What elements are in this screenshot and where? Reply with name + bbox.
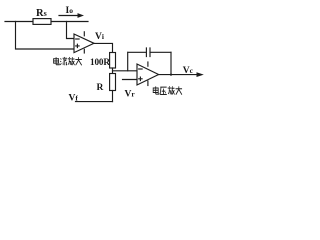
label 电压放大 [153,86,182,94]
arrow Io current direction [59,15,78,17]
U1 minus sign [76,38,79,40]
U1 V+ power stub [83,32,85,36]
wire top rail [5,21,88,23]
resistor R [110,74,116,91]
U2 minus sign [139,68,142,70]
U1 V- power stub [83,49,85,53]
svg-text:Io: Io [66,6,74,16]
svg-text:Vr: Vr [125,90,136,100]
op-amp U1 [74,34,94,53]
svg-text:Vi: Vi [95,32,104,42]
wire feedback left leg up [127,52,129,71]
wire bottom Vf lead [76,101,113,103]
wire U2 output with Vc arrow [159,74,197,76]
U1 plus sign [76,44,79,47]
wire junction between 100R and R [112,68,114,74]
svg-text:Vc: Vc [183,66,194,76]
svg-text:Rs: Rs [36,8,47,19]
svg-text:Vf: Vf [69,94,79,104]
resistor Rs [33,19,51,25]
wire U1 output to 100R [94,43,113,52]
node output junction [170,74,172,76]
wire feedback top left lead [128,51,146,53]
wire Vr stub to U2 plus input [123,79,138,81]
wire R bottom lead [112,91,114,102]
resistor 100R [110,53,116,69]
wire elbow from top rail to minus input of U1 [67,22,74,39]
capacitor C plates [146,48,150,57]
op-amp U2 [137,64,159,85]
wire junction to U2 minus input [113,70,138,72]
wire left branch down and to plus input of U1 [16,22,74,50]
svg-text:R: R [97,83,104,93]
U2 V- power stub [147,81,149,86]
U2 V+ power stub [147,62,149,66]
label 电流放大 [54,57,82,65]
wire feedback top right lead [150,51,171,53]
svg-text:100R: 100R [90,57,110,67]
U2 plus sign [139,77,142,80]
wire feedback right leg down to output [170,52,172,74]
